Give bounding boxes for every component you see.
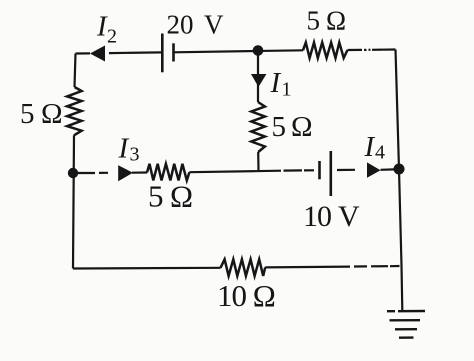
svg-text:V: V (204, 10, 224, 40)
svg-text:10: 10 (303, 200, 331, 233)
svg-text:5: 5 (307, 6, 321, 36)
svg-text:Ω: Ω (170, 179, 193, 214)
svg-text:I: I (364, 131, 376, 163)
svg-text:20: 20 (167, 10, 194, 40)
svg-text:10: 10 (217, 278, 247, 313)
svg-text:I: I (118, 133, 130, 165)
svg-text:Ω: Ω (326, 6, 346, 36)
svg-text:Ω: Ω (291, 111, 313, 143)
svg-text:4: 4 (375, 142, 385, 164)
svg-text:I: I (270, 67, 282, 99)
svg-text:2: 2 (107, 26, 117, 48)
svg-text:V: V (338, 200, 360, 233)
svg-text:5: 5 (148, 179, 164, 214)
svg-text:5: 5 (272, 111, 287, 143)
svg-text:1: 1 (282, 79, 292, 101)
svg-text:Ω: Ω (41, 98, 63, 130)
svg-text:Ω: Ω (253, 278, 276, 313)
svg-text:5: 5 (20, 98, 35, 130)
svg-text:3: 3 (130, 144, 140, 166)
